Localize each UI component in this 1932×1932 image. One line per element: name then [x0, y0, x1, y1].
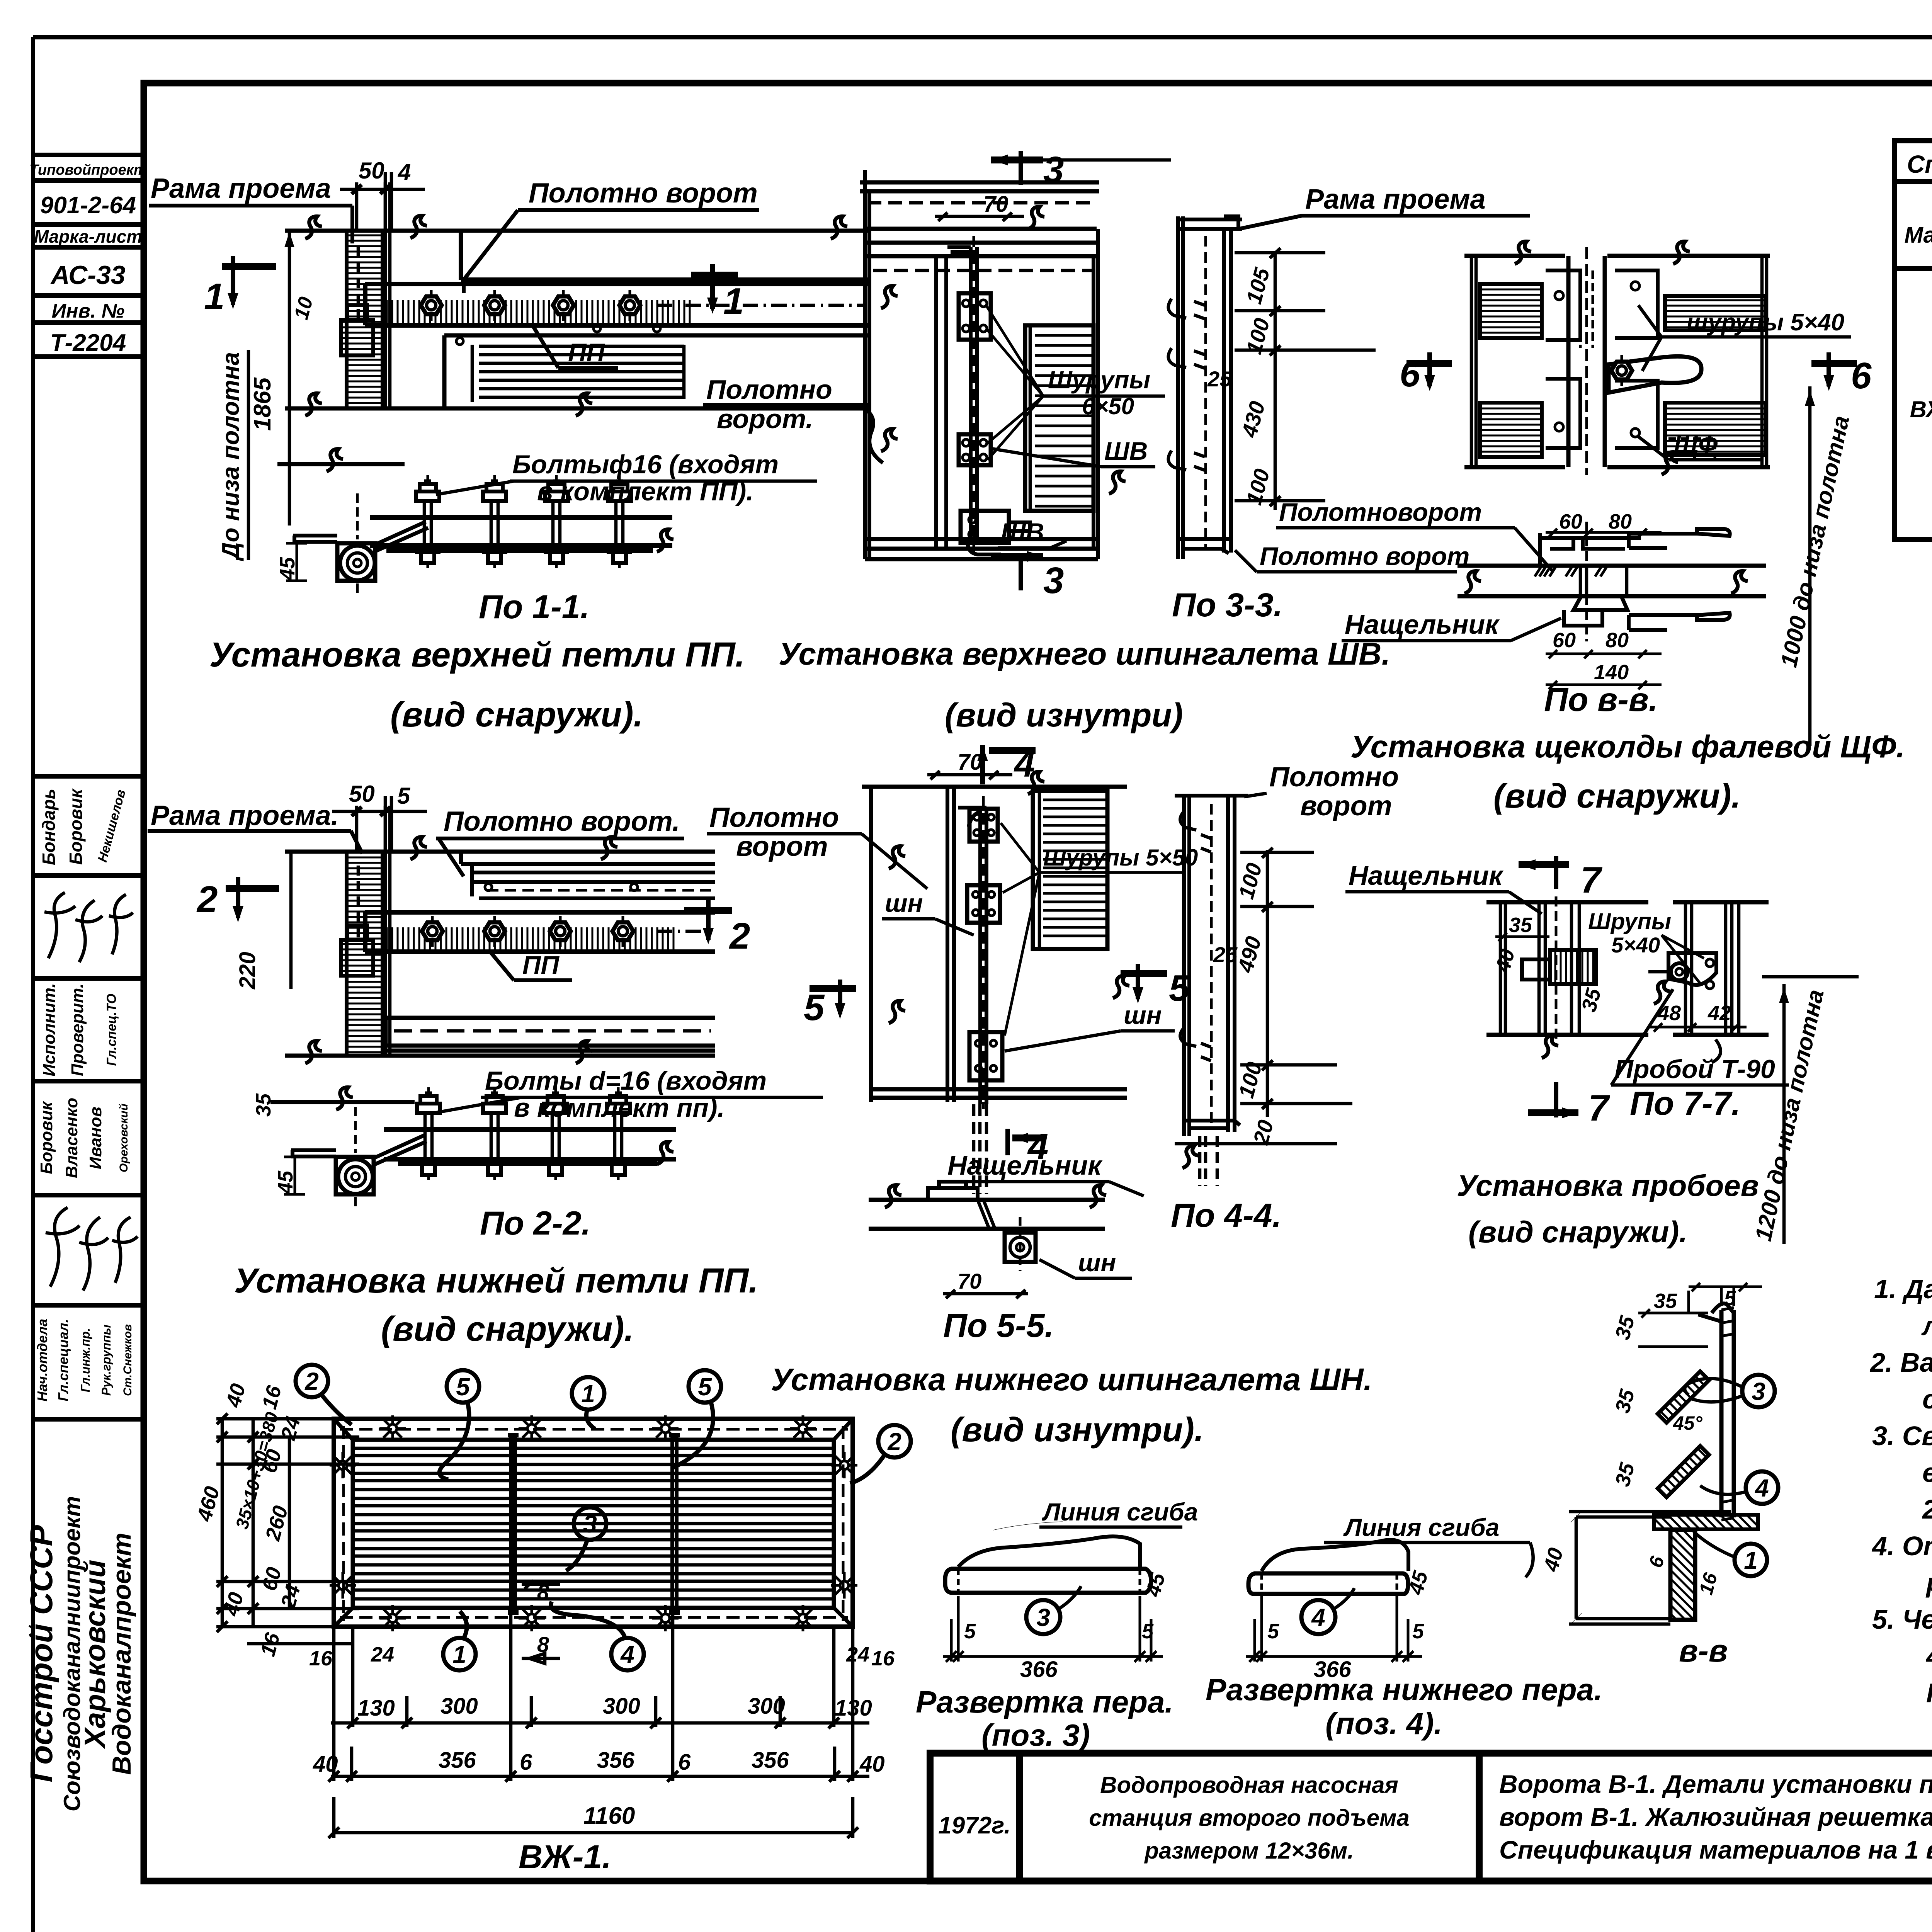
svg-text:Установка верхнего шпингалета: Установка верхнего шпингалета ШВ. [779, 636, 1390, 672]
svg-text:40: 40 [859, 1752, 885, 1777]
section mark 1 left [204, 256, 276, 317]
E1 door edge [947, 787, 954, 1102]
svg-text:25: 25 [1213, 942, 1238, 967]
svg-text:(вид снаружи).: (вид снаружи). [1493, 777, 1741, 815]
left dim stack [216, 1413, 359, 1644]
svg-text:Установка нижнего шпингалета: Установка нижнего шпингалета ШН. [771, 1362, 1372, 1397]
D1 gray louver door area [1025, 325, 1094, 511]
J circled numbers [1742, 1375, 1775, 1407]
svg-text:До низа полотна: До низа полотна [218, 352, 244, 561]
svg-text:3: 3 [583, 1510, 597, 1538]
svg-text:60: 60 [1553, 629, 1576, 652]
svg-text:Болты d=16 (входят: Болты d=16 (входят [485, 1066, 767, 1095]
svg-text:Типовойпроект: Типовойпроект [29, 162, 147, 178]
svg-text:в-в: в-в [1679, 1633, 1728, 1668]
pivot knuckle B2 [291, 1107, 427, 1211]
svg-text:Нащельник: Нащельник [947, 1150, 1103, 1180]
svg-text:35: 35 [252, 1093, 275, 1117]
label ShV 1 [989, 437, 1155, 467]
wall strip hatched (B) [347, 852, 383, 1056]
label Rama proema (D) [1240, 184, 1530, 229]
view B2 wall line [270, 1100, 415, 1104]
svg-text:1: 1 [452, 1641, 466, 1668]
svg-text:Исполнит.: Исполнит. [40, 983, 59, 1076]
label Bolty f16 (A) [436, 450, 817, 506]
svg-text:130: 130 [357, 1696, 395, 1721]
svg-text:4. Отверстия в ВЖ-1 ф6мм с: 4. Отверстия в ВЖ-1 ф6мм сверленые, [1871, 1531, 1932, 1561]
svg-text:Рама проема: Рама проема [151, 173, 331, 204]
svg-text:шн: шн [1124, 1001, 1162, 1029]
E2 dims 100/490/100/25/20 [1175, 848, 1352, 1144]
svg-text:50: 50 [349, 781, 375, 807]
label Bolty d=16 (B) [435, 1066, 823, 1122]
svg-text:ЩФ: ЩФ [1674, 430, 1718, 458]
view B2 hinge bar [384, 1129, 676, 1164]
circled numbers top [296, 1365, 911, 1670]
svg-text:1: 1 [723, 281, 744, 322]
stamp rotated row: signatures [44, 893, 133, 962]
section mark 1 right [691, 264, 744, 322]
svg-text:Развертка пера.: Развертка пера. [916, 1685, 1173, 1719]
section mark 5 right [1005, 964, 1190, 1051]
svg-text:Нащельник: Нащельник [1345, 609, 1500, 639]
svg-text:(вид снаружи).: (вид снаружи). [390, 696, 643, 734]
dim 50/4 (A) [340, 158, 425, 230]
svg-text:сварки тонколистовых элемент: сварки тонколистовых элементов. [1922, 1384, 1932, 1414]
label Nashchelnik (H) [1345, 861, 1542, 914]
door leaf louver panel (B top) [461, 852, 715, 898]
label Polotno vorot (E) [707, 802, 927, 889]
svg-text:16: 16 [309, 1647, 333, 1670]
label Polotno vorot (E2) [1244, 762, 1399, 821]
dims 48 42 [1650, 1002, 1747, 1032]
label shn (bottom view) [1039, 1248, 1132, 1278]
E1 rod [958, 796, 986, 1109]
view A2 wall line [277, 462, 405, 466]
svg-text:60: 60 [1559, 510, 1582, 533]
D1 wall line left [865, 170, 869, 559]
svg-text:5: 5 [1142, 1620, 1154, 1643]
svg-text:6: 6 [1400, 353, 1420, 395]
dim 45 (B2) [274, 1157, 305, 1194]
svg-text:220: 220 [235, 952, 260, 990]
section mark 7 top [1519, 856, 1603, 901]
svg-text:Ворота В-1. Детали установки: Ворота В-1. Детали установки приборов [1499, 1770, 1932, 1798]
svg-text:7: 7 [1588, 1087, 1611, 1129]
svg-text:3: 3 [1036, 1604, 1050, 1631]
dim 45 (A2) [276, 543, 307, 581]
D1 bottom rail [865, 539, 1098, 559]
label ShchF [1638, 430, 1762, 460]
title block [930, 1753, 1932, 1881]
label Rama proema (A) [149, 173, 352, 243]
svg-text:Водопроводная насосная: Водопроводная насосная [1100, 1772, 1398, 1798]
svg-text:80: 80 [1605, 629, 1629, 652]
svg-text:ШВ: ШВ [1104, 437, 1148, 465]
svg-text:356: 356 [752, 1748, 789, 1773]
svg-text:4: 4 [1311, 1604, 1325, 1631]
label Proboi T-90 [1611, 989, 1789, 1085]
D1 right door edge [1094, 229, 1098, 559]
view A2 hinge bar [370, 517, 672, 551]
svg-text:25: 25 [1207, 367, 1232, 391]
view B1: door top edge [285, 850, 715, 854]
door bottom edge (A1) [285, 406, 869, 411]
svg-text:(вид изнутри).: (вид изнутри). [951, 1410, 1204, 1449]
E1 louver block [1033, 791, 1107, 949]
svg-text:4: 4 [398, 159, 411, 185]
section mark 3 top [991, 149, 1171, 190]
svg-text:35: 35 [1509, 913, 1532, 937]
svg-text:Рама проема: Рама проема [1305, 184, 1486, 215]
svg-text:Ст.Снежков: Ст.Снежков [121, 1324, 134, 1396]
label PP (B) [491, 951, 572, 980]
svg-text:Иванов: Иванов [86, 1107, 105, 1169]
svg-text:Полотно: Полотно [709, 802, 839, 833]
E1 top line [862, 785, 1127, 789]
svg-text:Проверит.: Проверит. [68, 983, 87, 1076]
svg-text:48: 48 [1657, 1002, 1681, 1025]
stamp rotated row: signatures 2 [46, 1207, 138, 1291]
svg-text:Полотно ворот: Полотно ворот [529, 178, 758, 209]
break squiggles A1 [410, 216, 427, 238]
svg-text:ШВ: ШВ [1001, 518, 1044, 546]
svg-text:2: 2 [196, 879, 218, 920]
section mark 6 left [1400, 352, 1452, 395]
door bottom rail (B) [386, 1018, 715, 1051]
table steel spec [1895, 141, 1932, 539]
stamp rotated row: Исполнит Проверит [40, 983, 119, 1076]
svg-text:2: 2 [729, 915, 750, 957]
svg-text:140: 140 [1594, 661, 1629, 684]
svg-text:Гл.инж.пр.: Гл.инж.пр. [78, 1328, 92, 1393]
svg-text:раззенкованные с одной стор: раззенкованные с одной стороны. [1925, 1568, 1932, 1598]
svg-text:ворот.: ворот. [717, 404, 813, 434]
hole stars [379, 1415, 406, 1442]
svg-text:Нач.отдела: Нач.отдела [34, 1319, 50, 1401]
hinge plate PP (B) [365, 912, 715, 952]
svg-text:50: 50 [359, 158, 384, 184]
svg-text:1160: 1160 [583, 1803, 635, 1829]
svg-text:4: 4 [1754, 1474, 1769, 1502]
svg-text:(вид снаружи).: (вид снаружи). [1468, 1215, 1687, 1249]
svg-text:3: 3 [1752, 1378, 1765, 1405]
svg-text:Бондарь: Бондарь [39, 789, 59, 865]
dim line Do niza polotna 1865 [218, 231, 294, 561]
dim 8 labels [522, 1580, 560, 1663]
svg-text:Линия сгиба: Линия сгиба [1042, 1498, 1198, 1526]
svg-text:Установка щеколды фалевой ЩФ.: Установка щеколды фалевой ЩФ. [1350, 729, 1905, 764]
svg-text:Марка: Марка [1904, 223, 1932, 248]
svg-text:2: 2 [887, 1428, 901, 1456]
svg-text:5: 5 [456, 1373, 470, 1401]
svg-text:5: 5 [1169, 968, 1190, 1009]
svg-text:ворот: ворот [736, 831, 828, 862]
svg-text:356: 356 [439, 1748, 476, 1773]
Po 5-5 bottom small view [869, 1182, 1105, 1271]
section mark 5 left [804, 980, 856, 1028]
svg-text:Марка-лист: Марка-лист [34, 226, 143, 247]
dims 60 80 (G top) [1546, 510, 1662, 537]
svg-text:6: 6 [1851, 355, 1872, 396]
stamp rotated row: names Бондарь Боровик [39, 788, 129, 865]
svg-text:станция второго подъема: станция второго подъема [1089, 1805, 1409, 1831]
svg-text:1: 1 [1744, 1546, 1758, 1574]
svg-text:Госстрой СССР: Госстрой СССР [24, 1525, 59, 1782]
svg-text:Развертка нижнего пера.: Развертка нижнего пера. [1206, 1672, 1602, 1707]
svg-text:Боровик: Боровик [37, 1101, 56, 1174]
svg-text:размером 12×36м.: размером 12×36м. [1144, 1838, 1354, 1864]
svg-text:40: 40 [313, 1752, 338, 1777]
svg-text:1972г.: 1972г. [938, 1812, 1010, 1839]
dim 1200 do niza polotna [1750, 977, 1859, 1244]
hex bolts on plate (A) [421, 290, 442, 321]
E1 bottom rail [871, 1089, 1127, 1098]
svg-text:По 5-5.: По 5-5. [943, 1307, 1054, 1344]
svg-text:6: 6 [678, 1750, 691, 1775]
svg-text:(вид изнутри): (вид изнутри) [945, 697, 1183, 734]
svg-text:Пробой Т-90: Пробой Т-90 [1614, 1054, 1775, 1084]
svg-text:Шурупы: Шурупы [1048, 366, 1150, 394]
H view [1486, 896, 1769, 1039]
svg-text:ворот: ворот [1300, 791, 1392, 821]
svg-text:70: 70 [957, 750, 983, 775]
svg-text:Установка пробоев: Установка пробоев [1457, 1168, 1759, 1202]
anchor bolt in wall (A) [341, 247, 373, 355]
svg-text:ПП: ПП [522, 951, 560, 979]
label Shurupy 5x40 (H) [1588, 908, 1704, 983]
pivot knuckle A2 [293, 493, 428, 597]
svg-text:Нащельник: Нащельник [1349, 861, 1504, 891]
svg-text:4: 4 [620, 1641, 634, 1668]
dim 70 (bottom view) [943, 1269, 1028, 1298]
stamp column dividers [33, 155, 144, 1419]
louver slats [353, 1448, 834, 1599]
svg-text:5: 5 [964, 1620, 976, 1643]
svg-text:шн: шн [1078, 1248, 1116, 1277]
svg-text:(поз. 4).: (поз. 4). [1325, 1706, 1442, 1741]
svg-text:(вид снаружи).: (вид снаружи). [381, 1310, 634, 1349]
D1 head rail [860, 182, 1099, 270]
label shn (E left) [882, 889, 974, 935]
svg-text:Шрупы: Шрупы [1588, 908, 1671, 934]
labels Polotno vorot / Nashchelnik (G) [1276, 498, 1553, 572]
section mark 3 bottom [991, 551, 1064, 601]
svg-text:5: 5 [1267, 1620, 1279, 1643]
label PP (A) [533, 327, 618, 368]
svg-text:Гл.спец.ТО: Гл.спец.ТО [104, 994, 119, 1066]
svg-text:Установка верхней петли ПП.: Установка верхней петли ПП. [209, 636, 745, 674]
svg-text:2. Варить тонким электродом,: 2. Варить тонким электродом, соблюдая ре… [1869, 1347, 1932, 1378]
svg-text:Рама проема.: Рама проема. [151, 800, 339, 831]
svg-text:Т-2204: Т-2204 [50, 330, 126, 356]
svg-text:Болтыф16 (входят: Болтыф16 (входят [512, 450, 779, 479]
svg-text:(поз. 3): (поз. 3) [981, 1718, 1090, 1752]
frame plate 4mm lines [385, 182, 390, 408]
svg-text:Установка нижней петли ПП.: Установка нижней петли ПП. [234, 1262, 758, 1300]
svg-text:2мм.: 2мм. [1922, 1494, 1932, 1524]
svg-text:45°: 45° [1673, 1412, 1703, 1434]
svg-text:70: 70 [957, 1269, 981, 1293]
stamp rotated row: Боровик Власенко Иванов [37, 1098, 130, 1178]
svg-text:АС-33: АС-33 [50, 260, 125, 290]
svg-text:Полотно: Полотно [706, 374, 832, 405]
D1 door edge [936, 256, 946, 549]
svg-text:Водоканалпроект: Водоканалпроект [107, 1533, 136, 1775]
svg-text:Полотно ворот: Полотно ворот [1260, 542, 1469, 570]
label Shurupy 6x50 [986, 305, 1165, 460]
label Nashchelnik (E) [945, 1150, 1144, 1196]
stamp top cells text [29, 162, 147, 356]
svg-text:4-07-559 Промстройпроекта 1: 4-07-559 Промстройпроекта 1961г. серия [1925, 1641, 1932, 1671]
svg-text:шн: шн [885, 889, 923, 917]
hinge plate PP (A) [365, 284, 869, 325]
latch hex [1611, 355, 1632, 386]
D1 rod [947, 236, 1001, 554]
svg-text:80: 80 [1609, 510, 1632, 533]
svg-text:5. Чертеж заимствован из тип: 5. Чертеж заимствован из типового проект… [1872, 1604, 1932, 1634]
svg-text:Спецификация материалов на 1: Спецификация материалов на 1 ворота. [1499, 1835, 1932, 1864]
label Shurupy 5x50 [1001, 823, 1198, 1036]
svg-text:ВЖ-1: ВЖ-1 [1910, 396, 1932, 422]
svg-text:42: 42 [1708, 1002, 1731, 1025]
svg-text:шурупы 5×40: шурупы 5×40 [1687, 309, 1844, 336]
D2 edge view Po 3-3 [1168, 216, 1242, 559]
svg-text:По 1-1.: По 1-1. [479, 588, 589, 626]
dim 1000 do niza polotna [1776, 386, 1854, 746]
svg-text:5: 5 [698, 1373, 712, 1401]
label Rama proema (B) [148, 800, 362, 854]
dim 70 (D) [935, 192, 1024, 221]
svg-text:901-2-64: 901-2-64 [40, 192, 136, 219]
svg-text:Рук.группы: Рук.группы [99, 1325, 113, 1396]
svg-text:ВЖ-1.: ВЖ-1. [519, 1838, 611, 1876]
svg-text:Боровик: Боровик [66, 788, 86, 865]
svg-text:Полотно ворот.: Полотно ворот. [444, 806, 680, 837]
E1 left edge [869, 787, 873, 1102]
E2 edge view Po 4-4 [1175, 796, 1248, 1186]
svg-text:2: 2 [304, 1367, 319, 1395]
svg-text:1: 1 [204, 276, 224, 317]
bottom dims [328, 1615, 869, 1838]
svg-text:Шурупы 5×50: Шурупы 5×50 [1043, 845, 1198, 871]
svg-text:366: 366 [1020, 1657, 1058, 1682]
dim 50/5 (B) [332, 781, 427, 850]
svg-text:35: 35 [1654, 1289, 1677, 1313]
section mark 2 right [684, 900, 750, 957]
svg-text:По в-в.: По в-в. [1544, 681, 1658, 718]
svg-text:ем перьев, которые приварив: ем перьев, которые привариваются швом [1922, 1458, 1932, 1488]
D2 dims 105/100/430/100 [1235, 248, 1376, 510]
svg-text:300: 300 [603, 1694, 640, 1719]
tie rods [508, 1435, 680, 1612]
svg-text:Полотноворот: Полотноворот [1279, 498, 1482, 526]
svg-text:300: 300 [440, 1694, 478, 1719]
svg-text:П-206 вып. 22 листы АС-7 и: П-206 вып. 22 листы АС-7 и АС-18. [1926, 1678, 1932, 1708]
svg-text:130: 130 [835, 1696, 872, 1721]
label Polotno vorot (B) [436, 806, 684, 876]
label Polotno vorot (A top) [464, 178, 759, 293]
svg-text:300: 300 [748, 1694, 785, 1719]
dims 60 80 140 (G bottom) [1546, 629, 1662, 689]
svg-text:Инв. №: Инв. № [52, 300, 125, 322]
F view outline [1464, 247, 1770, 475]
svg-text:Полотно: Полотно [1269, 762, 1399, 793]
svg-text:3: 3 [1043, 560, 1064, 601]
svg-text:1. Данный лист рассматривать: 1. Данный лист рассматривать совместно с [1874, 1274, 1932, 1304]
svg-text:Линия сгиба: Линия сгиба [1343, 1514, 1499, 1541]
svg-text:листами АС-3, АС-Б, АС-32.: листами АС-3, АС-Б, АС-32. [1921, 1311, 1932, 1341]
J dims [1638, 1283, 1762, 1347]
stamp bottom cell: Госстрой СССР [24, 1496, 136, 1811]
label shurupy 5x40 (F) [1638, 305, 1851, 371]
svg-text:Гл.специал.: Гл.специал. [55, 1319, 71, 1401]
svg-text:По 3-3.: По 3-3. [1172, 587, 1282, 624]
view A1: door top edge [285, 229, 869, 233]
svg-text:5×40: 5×40 [1611, 933, 1660, 957]
svg-text:1865: 1865 [249, 377, 276, 431]
D1 plates [959, 293, 1030, 543]
view B1 bottom line [285, 1054, 715, 1058]
svg-text:16: 16 [871, 1647, 895, 1670]
door leaf rebate corner (A) [461, 232, 869, 280]
svg-text:5: 5 [1724, 1287, 1736, 1310]
svg-text:ворот В-1. Жалюзийная решетк: ворот В-1. Жалюзийная решетка ВЖ-1. [1499, 1803, 1932, 1831]
svg-text:356: 356 [597, 1748, 635, 1773]
section mark 6 right [1811, 352, 1872, 396]
svg-text:24: 24 [846, 1643, 869, 1666]
svg-text:Ореховский: Ореховский [117, 1104, 130, 1172]
E1 plates [967, 809, 1002, 1080]
svg-text:3. Сварные швы толщиной 5мм: 3. Сварные швы толщиной 5мм за исключени… [1872, 1421, 1932, 1451]
svg-text:По 7-7.: По 7-7. [1630, 1085, 1740, 1122]
anchor bolt in wall (B) [341, 866, 373, 976]
wall strip hatched (A) [347, 231, 383, 408]
svg-text:5: 5 [1412, 1620, 1424, 1643]
svg-text:Спецификация стали(марки ст.3): Спецификация стали(марки ст.3) на 1штуку… [1907, 150, 1932, 178]
svg-text:5: 5 [804, 987, 825, 1028]
rod below rail dashed + mark 4 bottom [974, 1104, 986, 1194]
svg-text:7: 7 [1580, 859, 1603, 901]
svg-text:1: 1 [581, 1380, 595, 1408]
label ShV 2 [998, 518, 1066, 548]
svg-text:5: 5 [397, 783, 411, 809]
svg-text:Власенко: Власенко [62, 1098, 81, 1178]
svg-text:6: 6 [520, 1750, 532, 1775]
label Polotno vorot. (A right) [703, 374, 883, 463]
section mark 7 bottom [1528, 1082, 1611, 1129]
svg-text:По 2-2.: По 2-2. [480, 1205, 590, 1242]
dims H [1491, 913, 1605, 1014]
svg-text:24: 24 [371, 1643, 394, 1666]
dim 220 (B) [235, 852, 291, 990]
door leaf louver panel (A) [444, 325, 869, 407]
bolts A2 [416, 475, 439, 568]
svg-text:По 4-4.: По 4-4. [1171, 1197, 1281, 1234]
section mark 2 left [196, 877, 279, 922]
dim 70 + mark 4 top [927, 743, 1036, 785]
stamp rotated row: Нач.отдела [34, 1319, 134, 1401]
